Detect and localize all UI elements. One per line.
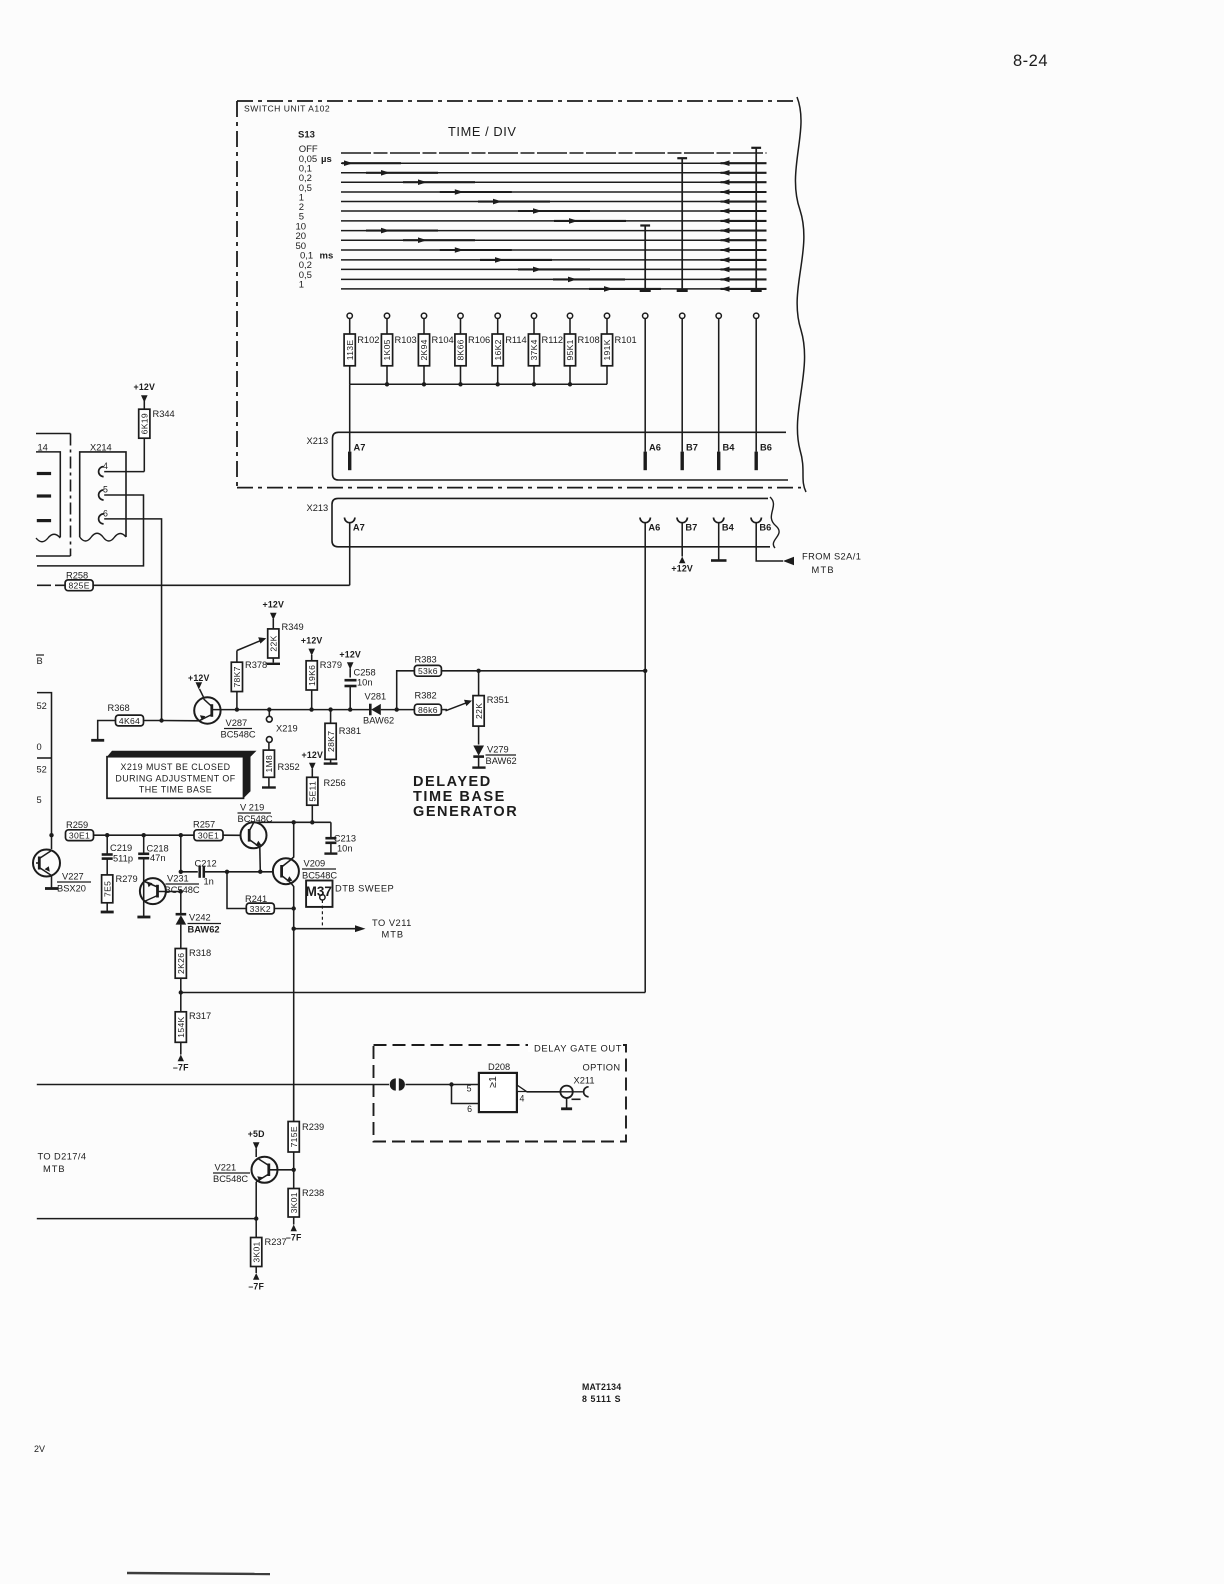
svg-text:S13: S13 — [298, 130, 315, 141]
svg-text:–7F: –7F — [248, 1282, 264, 1292]
wire D208 input — [37, 1084, 389, 1086]
resistor R352 — [268, 742, 270, 750]
capacitor C218 — [143, 835, 145, 854]
svg-text:95K1: 95K1 — [565, 339, 575, 360]
resistor bus wire — [350, 383, 607, 385]
wire pin5 — [37, 495, 144, 566]
svg-text:X219: X219 — [276, 724, 298, 734]
junction V231 node — [179, 833, 183, 837]
svg-text:TO V211: TO V211 — [372, 918, 412, 928]
contact circle x=387 — [384, 313, 389, 318]
svg-text:A6: A6 — [649, 443, 661, 453]
svg-text:TIME / DIV: TIME / DIV — [448, 124, 517, 139]
wire pin6 — [104, 519, 161, 721]
svg-text:R318: R318 — [189, 948, 211, 958]
svg-text:DURING ADJUSTMENT OF: DURING ADJUSTMENT OF — [115, 774, 235, 784]
svg-text:V287: V287 — [226, 718, 248, 728]
svg-text:22K: 22K — [474, 703, 484, 719]
svg-text:33K2: 33K2 — [250, 904, 271, 914]
svg-text:+12V: +12V — [263, 600, 285, 610]
svg-text:X211: X211 — [574, 1076, 595, 1086]
outer unit border — [36, 433, 71, 435]
svg-text:52: 52 — [37, 701, 47, 711]
wire feedthrough to D208 — [406, 1084, 479, 1086]
svg-text:V 219: V 219 — [240, 803, 264, 813]
junction R318 bottom — [179, 990, 183, 994]
bus junction x=534 — [532, 382, 536, 386]
svg-text:R368: R368 — [108, 703, 130, 713]
capacitor C212 — [181, 871, 198, 873]
wire B7 to +12V — [681, 523, 683, 557]
svg-text:4K64: 4K64 — [119, 716, 140, 726]
svg-text:+12V: +12V — [671, 564, 693, 574]
svg-text:4: 4 — [520, 1094, 525, 1104]
capacitor C219 — [106, 835, 108, 854]
svg-text:R259: R259 — [66, 820, 88, 830]
junction R241 right — [292, 906, 296, 910]
contact circle x=570 — [567, 313, 572, 318]
svg-text:–7F: –7F — [286, 1233, 302, 1243]
svg-text:R378: R378 — [245, 660, 267, 670]
junction V281 out — [395, 707, 399, 711]
svg-text:113E: 113E — [345, 340, 355, 361]
socket X214 pin 4 — [99, 467, 104, 477]
svg-text:4: 4 — [103, 461, 108, 471]
svg-text:8 5111 S: 8 5111 S — [582, 1394, 621, 1404]
svg-text:B7: B7 — [686, 443, 698, 453]
resistor R103 — [386, 319, 388, 335]
svg-text:R104: R104 — [432, 335, 454, 345]
contact circle x=645.2 — [643, 313, 648, 318]
svg-text:C218: C218 — [147, 844, 169, 854]
pin A7 upper — [348, 452, 351, 471]
svg-text:R344: R344 — [153, 409, 175, 419]
svg-text:DELAYED: DELAYED — [413, 774, 492, 790]
contact circle x=349.7 — [347, 313, 352, 318]
svg-text:R102: R102 — [357, 335, 379, 345]
junction R378 — [235, 707, 239, 711]
svg-text:+12V: +12V — [188, 673, 210, 683]
svg-text:52: 52 — [37, 765, 47, 775]
-7F supply R238 — [291, 1225, 297, 1232]
resistor R104 — [423, 319, 425, 335]
svg-text:154K: 154K — [176, 1016, 186, 1037]
svg-text:V227: V227 — [62, 872, 84, 882]
svg-text:1n: 1n — [204, 877, 214, 887]
junction R241 tap — [225, 870, 229, 874]
pin B7 upper — [681, 452, 684, 471]
diode V242 — [180, 892, 182, 914]
pin B6 upper — [755, 452, 758, 471]
svg-text:V281: V281 — [365, 692, 387, 702]
switch unit torn right edge — [795, 97, 806, 492]
svg-text:TO D217/4: TO D217/4 — [38, 1152, 87, 1162]
wire TO V211 — [294, 928, 355, 930]
svg-text:SWITCH UNIT A102: SWITCH UNIT A102 — [244, 104, 330, 114]
svg-text:R256: R256 — [324, 778, 346, 788]
svg-text:10n: 10n — [357, 678, 373, 688]
svg-text:+5D: +5D — [248, 1129, 265, 1139]
resistor R378 — [236, 651, 238, 663]
junction C219 — [105, 833, 109, 837]
contact circle x=460.5 — [458, 313, 463, 318]
svg-text:GENERATOR: GENERATOR — [413, 804, 518, 820]
contact circle x=682.2 — [680, 313, 685, 318]
svg-text:+12V: +12V — [301, 636, 323, 646]
svg-text:D208: D208 — [488, 1062, 510, 1072]
wire collector bus — [252, 821, 331, 823]
svg-text:22K: 22K — [269, 635, 279, 651]
svg-text:MTB: MTB — [812, 565, 835, 575]
svg-text:BAW62: BAW62 — [363, 716, 394, 726]
svg-text:R112: R112 — [542, 335, 564, 345]
resistor R106 — [460, 319, 462, 335]
svg-text:V221: V221 — [215, 1163, 237, 1173]
svg-text:191K: 191K — [602, 339, 612, 360]
svg-text:B7: B7 — [685, 523, 697, 533]
svg-text:R379: R379 — [320, 660, 342, 670]
svg-text:FROM S2A/1: FROM S2A/1 — [802, 552, 861, 562]
junction C218 — [142, 833, 146, 837]
bus junction x=387 — [385, 382, 389, 386]
svg-text:R257: R257 — [193, 820, 215, 830]
resistor R344 — [139, 409, 150, 438]
wire A7 drop — [349, 384, 351, 451]
svg-text:MTB: MTB — [382, 930, 405, 940]
svg-text:511p: 511p — [113, 854, 133, 864]
wire column drop x=718.7 — [718, 319, 720, 452]
wire emitter net left — [37, 1218, 256, 1220]
svg-text:78K7: 78K7 — [232, 666, 242, 687]
potentiometer R349 — [268, 629, 279, 658]
transistor V209 — [273, 858, 299, 884]
svg-text:MAT2134: MAT2134 — [582, 1382, 621, 1392]
resistor R102 — [349, 319, 351, 335]
svg-text:6: 6 — [103, 508, 108, 518]
contact circle x=534 — [531, 313, 536, 318]
svg-text:30E1: 30E1 — [69, 831, 90, 841]
svg-text:5: 5 — [103, 484, 108, 494]
svg-text:1: 1 — [299, 280, 304, 291]
transistor V219 — [241, 822, 267, 848]
connector X213 upper — [333, 432, 789, 480]
switch column B7 wire — [677, 157, 687, 159]
contact circle x=718.7 — [716, 313, 721, 318]
socket X214 pin 6 — [99, 514, 104, 524]
svg-text:M37: M37 — [306, 884, 332, 899]
contact circle x=424 — [421, 313, 426, 318]
svg-text:X213: X213 — [307, 503, 329, 513]
resistor R256 — [307, 777, 318, 805]
svg-text:V231: V231 — [167, 874, 189, 884]
svg-text:OPTION: OPTION — [583, 1063, 621, 1073]
svg-text:R352: R352 — [278, 762, 300, 772]
svg-text:BC548C: BC548C — [238, 814, 273, 824]
connector X211 — [560, 1086, 572, 1098]
svg-text:B6: B6 — [759, 523, 771, 533]
svg-text:X219 MUST BE CLOSED: X219 MUST BE CLOSED — [121, 762, 231, 772]
off-page unit box 14 — [36, 452, 60, 537]
svg-text:8K66: 8K66 — [456, 339, 466, 360]
svg-text:86k6: 86k6 — [418, 705, 438, 715]
svg-text:V279: V279 — [487, 745, 509, 755]
wire A6 long vertical — [644, 523, 646, 993]
svg-text:3K01: 3K01 — [251, 1241, 261, 1262]
svg-text:R279: R279 — [116, 874, 138, 884]
wire V231 to C212 — [180, 835, 182, 872]
switch unit A102 border — [237, 100, 797, 102]
connector X214 outline — [80, 452, 126, 537]
ground R279 — [101, 911, 114, 914]
junction X214-6/R368 — [159, 718, 163, 722]
svg-text:V242: V242 — [189, 913, 211, 923]
connector X213 lower — [332, 498, 770, 546]
resistor R239 — [288, 1122, 299, 1153]
R382 wiper arrow to R351 — [446, 702, 469, 711]
svg-text:37K4: 37K4 — [529, 339, 539, 360]
svg-text:BC548C: BC548C — [221, 730, 256, 740]
svg-text:≥1: ≥1 — [487, 1076, 499, 1088]
socket B7 lower — [677, 518, 687, 523]
svg-text:X214: X214 — [90, 443, 112, 453]
svg-text:R239: R239 — [302, 1122, 324, 1132]
svg-text:R101: R101 — [615, 335, 637, 345]
svg-text:C258: C258 — [354, 668, 376, 678]
socket A7 lower — [345, 518, 355, 523]
switch X219 — [266, 716, 272, 722]
-7F supply R237 — [253, 1273, 259, 1280]
contact circle x=607 — [604, 313, 609, 318]
svg-text:6: 6 — [467, 1104, 472, 1114]
ground R368 — [91, 739, 104, 742]
switch column A6 wire — [640, 224, 650, 226]
wire to R383 — [397, 671, 415, 710]
junction C212 left — [179, 870, 183, 874]
resistor R317 — [175, 1012, 186, 1043]
gate D208 — [479, 1073, 517, 1112]
wire R257 to V219 — [223, 834, 241, 836]
resistor R238 — [288, 1189, 299, 1218]
note box — [107, 751, 257, 757]
junction V209 collector top — [292, 820, 296, 824]
svg-text:1K05: 1K05 — [382, 339, 392, 360]
wire pin4 — [104, 471, 144, 473]
diode V279 — [473, 746, 484, 756]
bus junction x=460.5 — [458, 382, 462, 386]
+12V supply at B7 — [679, 557, 685, 564]
socket A6 lower — [640, 518, 650, 523]
svg-text:1M8: 1M8 — [264, 755, 274, 773]
bus junction x=570 — [568, 382, 572, 386]
junction R379 — [309, 707, 313, 711]
resistor R279 — [102, 875, 113, 903]
svg-text:A7: A7 — [354, 443, 366, 453]
pin A6 upper — [644, 452, 647, 471]
svg-text:BAW62: BAW62 — [486, 756, 517, 766]
socket X214 pin 5 — [99, 490, 104, 500]
svg-text:V209: V209 — [304, 859, 326, 869]
svg-text:R351: R351 — [487, 695, 509, 705]
junction TO V211 — [292, 927, 296, 931]
contact circle x=497.7 — [495, 313, 500, 318]
svg-text:R114: R114 — [505, 335, 527, 345]
svg-text:R383: R383 — [415, 655, 437, 665]
svg-text:A7: A7 — [353, 523, 365, 533]
svg-text:3K01: 3K01 — [289, 1192, 299, 1213]
R349 wiper arrow — [237, 640, 263, 651]
wire R259 to R257 — [94, 834, 195, 836]
svg-text:R106: R106 — [468, 335, 490, 345]
switch column B6 wire — [751, 147, 761, 149]
svg-text:2V: 2V — [34, 1444, 45, 1454]
-7F supply R317 — [178, 1055, 184, 1062]
wire C218 to ground — [143, 877, 145, 917]
feedthrough — [390, 1078, 396, 1090]
junction R259 left — [49, 833, 53, 837]
wire R239 top — [293, 1085, 295, 1122]
svg-text:B4: B4 — [723, 443, 736, 453]
svg-text:10n: 10n — [337, 844, 353, 854]
transistor V287 — [194, 697, 220, 723]
wire D208 output — [527, 1091, 561, 1093]
svg-text:R349: R349 — [282, 622, 304, 632]
svg-text:R382: R382 — [415, 690, 437, 700]
junction C258 — [348, 707, 352, 711]
svg-text:R381: R381 — [339, 726, 361, 736]
wire V219 collector — [253, 821, 255, 824]
svg-text:X213: X213 — [307, 436, 329, 446]
delay gate out dashed box — [374, 1045, 627, 1142]
svg-text:47n: 47n — [150, 853, 166, 863]
junction V221 collector — [292, 1168, 296, 1172]
svg-text:C213: C213 — [334, 834, 356, 844]
svg-text:30E1: 30E1 — [198, 831, 219, 841]
contact bar 1 — [37, 472, 51, 475]
wire left stub upper — [37, 693, 52, 849]
wire V209 collector — [291, 822, 294, 860]
svg-text:53k6: 53k6 — [418, 666, 438, 676]
socket B4 lower — [714, 518, 724, 523]
open end B4 — [711, 559, 727, 562]
svg-text:C219: C219 — [110, 843, 132, 853]
wire D208 pin6 — [452, 1085, 479, 1104]
svg-text:BSX20: BSX20 — [57, 884, 86, 894]
wire V221 emitter — [255, 1182, 257, 1238]
bus junction x=424 — [422, 382, 426, 386]
wire column drop x=756.2 — [755, 319, 757, 452]
wire B6 from S2A/1 — [756, 523, 783, 561]
svg-text:ms: ms — [320, 251, 334, 262]
svg-text:5: 5 — [37, 795, 42, 805]
svg-text:R108: R108 — [578, 335, 600, 345]
ground V227 — [45, 887, 58, 890]
svg-text:R317: R317 — [189, 1011, 211, 1021]
wire main node V287 base — [213, 709, 370, 711]
svg-text:2K94: 2K94 — [419, 339, 429, 360]
svg-text:825E: 825E — [68, 581, 89, 591]
svg-text:19K6: 19K6 — [307, 665, 317, 686]
svg-text:TIME BASE: TIME BASE — [413, 789, 506, 805]
junction V219e/V209b — [258, 870, 262, 874]
capacitor C258 — [345, 679, 357, 682]
socket B6 lower — [751, 518, 761, 523]
svg-text:8-24: 8-24 — [1013, 52, 1048, 70]
svg-text:THE TIME BASE: THE TIME BASE — [139, 785, 212, 795]
svg-text:B6: B6 — [760, 443, 772, 453]
resistor R237 — [251, 1238, 262, 1267]
resistor R114 — [497, 319, 499, 335]
contact bar 3 — [37, 519, 51, 522]
svg-text:R258: R258 — [66, 571, 88, 581]
svg-text:+12V: +12V — [339, 650, 361, 660]
svg-text:+12V: +12V — [134, 382, 156, 392]
resistor R318 — [175, 949, 186, 979]
junction D208 pin6 branch — [449, 1082, 453, 1086]
resistor R381 — [330, 710, 332, 724]
svg-text:B: B — [37, 656, 43, 666]
svg-text:715E: 715E — [289, 1126, 299, 1147]
transistor V231 — [140, 878, 166, 904]
potentiometer R351 — [478, 671, 480, 696]
wire V287 emitter to R368 node — [162, 720, 199, 722]
svg-text:6K19: 6K19 — [139, 413, 149, 434]
blue pen mark — [127, 1573, 270, 1574]
resistor R108 — [569, 319, 571, 335]
resistor R379 — [306, 661, 317, 690]
svg-text:7E5: 7E5 — [102, 881, 112, 897]
diode V281 — [369, 704, 372, 716]
junction V221 emitter — [254, 1216, 258, 1220]
svg-text:MTB: MTB — [43, 1164, 66, 1174]
transistor V227 — [33, 850, 60, 877]
wire B4 stub — [718, 523, 720, 560]
contact bar 2 — [37, 494, 51, 497]
svg-text:DTB SWEEP: DTB SWEEP — [335, 884, 394, 894]
svg-text:BC548C: BC548C — [213, 1174, 248, 1184]
svg-text:BAW62: BAW62 — [188, 925, 220, 935]
wire left stub mid — [37, 757, 52, 759]
svg-text:R237: R237 — [265, 1237, 287, 1247]
svg-text:R238: R238 — [302, 1188, 324, 1198]
wire V209 emitter — [291, 883, 294, 1122]
svg-text:–7F: –7F — [173, 1063, 189, 1073]
wire R241 left leg — [227, 872, 246, 909]
svg-text:5E11: 5E11 — [308, 781, 318, 802]
monitor point M37 — [306, 881, 332, 907]
svg-text:B4: B4 — [722, 523, 735, 533]
pin B4 upper — [717, 452, 720, 471]
wire column drop x=645.2 — [644, 319, 646, 452]
resistor R112 — [533, 319, 535, 335]
bus junction x=497.7 — [496, 382, 500, 386]
svg-text:DELAY GATE OUT: DELAY GATE OUT — [534, 1043, 622, 1054]
svg-text:28K7: 28K7 — [326, 731, 336, 752]
junction V231 base — [179, 889, 183, 893]
svg-text:C212: C212 — [195, 859, 217, 869]
wire R344 to pin4 — [143, 438, 145, 471]
capacitor C213 — [330, 822, 332, 838]
svg-text:16K2: 16K2 — [493, 339, 503, 360]
junction R256 bottom — [310, 820, 314, 824]
ground C218 — [137, 916, 150, 919]
gate output wedge — [517, 1085, 526, 1091]
junction X219 — [267, 707, 271, 711]
svg-text:R103: R103 — [395, 335, 417, 345]
transistor V221 — [252, 1157, 278, 1183]
contact circle x=756.2 — [754, 313, 759, 318]
junction R351 top — [476, 669, 480, 673]
junction R381 — [328, 707, 332, 711]
